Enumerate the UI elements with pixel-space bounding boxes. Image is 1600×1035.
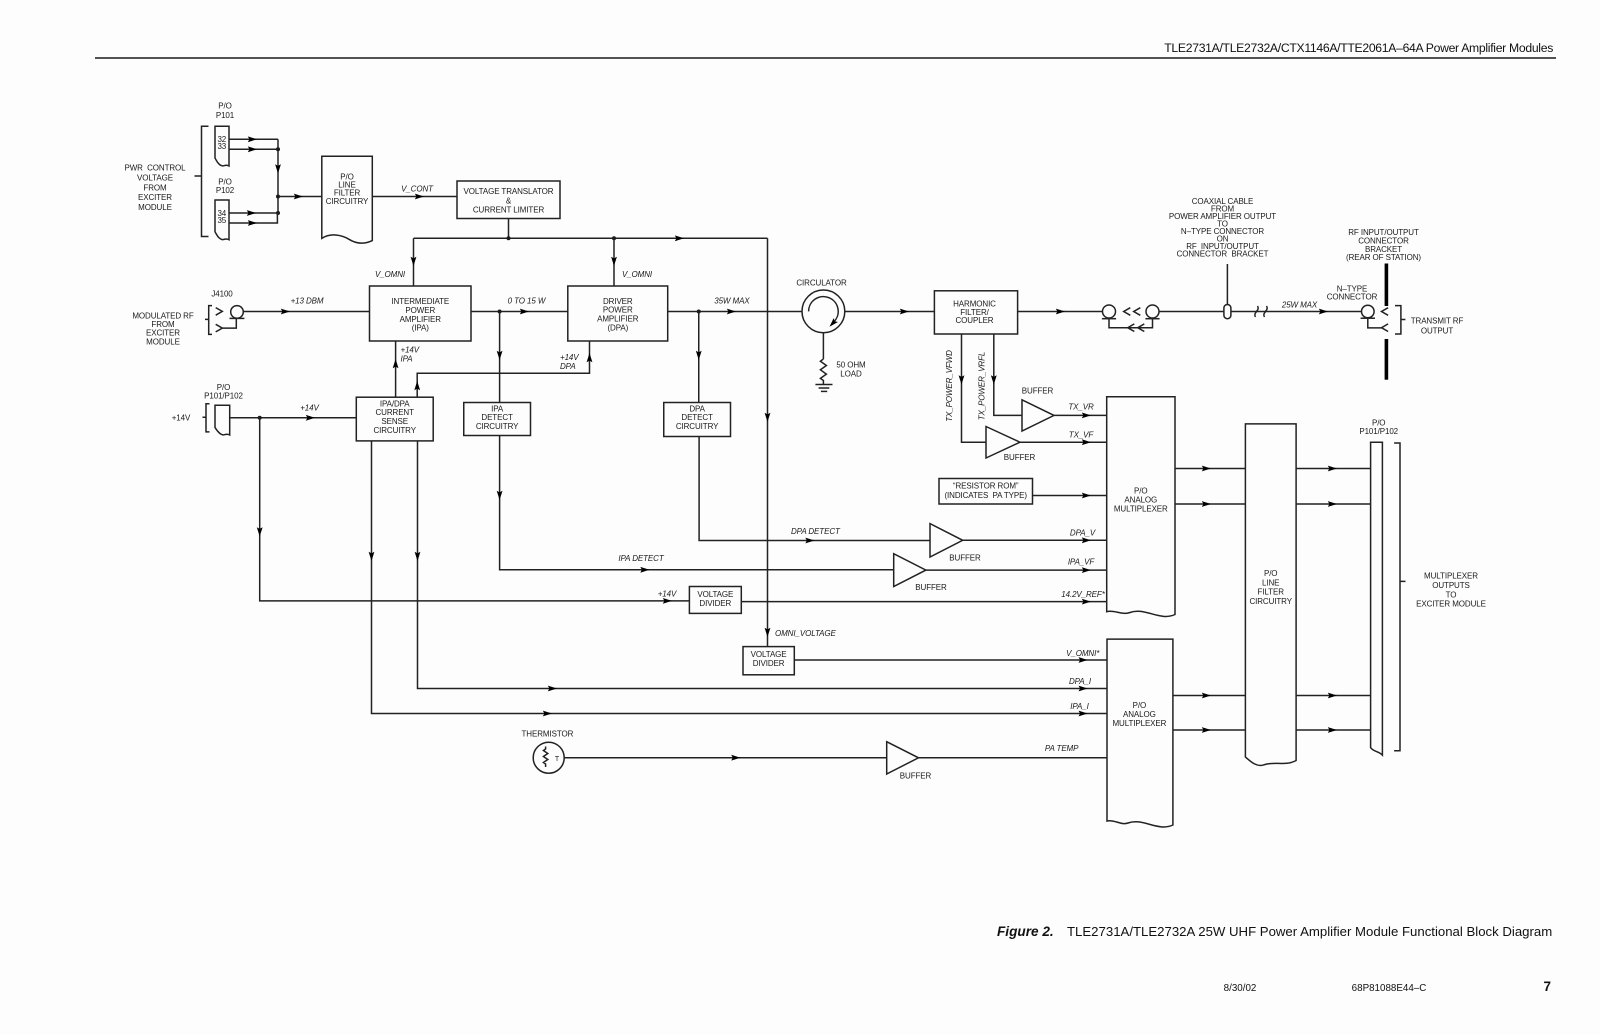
svg-text:T: T — [555, 756, 560, 763]
IPA box — [370, 286, 472, 341]
svg-text:FROM: FROM — [151, 320, 175, 329]
svg-text:CONNECTOR BRACKET: CONNECTOR BRACKET — [1177, 250, 1269, 259]
svg-text:BUFFER: BUFFER — [1004, 453, 1036, 462]
buffer IPA_VF — [894, 554, 926, 587]
svg-text:IPA/DPA: IPA/DPA — [380, 399, 410, 408]
label RF INPUT/OUTPUT CONNECTOR BRACKET (REAR OF STATION) — [1346, 228, 1421, 262]
shield stub below N connector — [1368, 318, 1382, 328]
svg-text:7: 7 — [1543, 979, 1551, 994]
svg-text:P/O: P/O — [1134, 487, 1147, 496]
svg-text:POWER: POWER — [405, 306, 435, 315]
svg-text:Figure 2.: Figure 2. — [997, 924, 1054, 939]
svg-text:DPA: DPA — [689, 404, 705, 413]
cable break symbol — [1255, 306, 1267, 317]
mating arrow out — [1382, 308, 1389, 316]
svg-text:P101/P102: P101/P102 — [1359, 427, 1398, 436]
svg-text:FILTER: FILTER — [1258, 588, 1285, 597]
harmonic filter/coupler box — [934, 291, 1017, 334]
svg-text:+14V: +14V — [172, 413, 191, 422]
wire V_CONT — [372, 196, 457, 198]
svg-text:FROM: FROM — [143, 183, 167, 192]
svg-text:V_OMNI*: V_OMNI* — [1066, 649, 1100, 658]
svg-text:DPA_I: DPA_I — [1069, 677, 1092, 686]
svg-text:MODULE: MODULE — [138, 203, 172, 212]
label COAXIAL CABLE ... — [1169, 197, 1276, 259]
wire IPA_VF to mux — [926, 569, 1107, 571]
ground — [815, 385, 832, 392]
svg-text:INTERMEDIATE: INTERMEDIATE — [391, 297, 449, 306]
svg-text:P/O: P/O — [1133, 701, 1146, 710]
svg-text:P/O: P/O — [218, 177, 231, 186]
mating arrows center — [1124, 308, 1131, 316]
svg-text:CIRCUITRY: CIRCUITRY — [373, 426, 416, 435]
svg-text:0 TO 15 W: 0 TO 15 W — [508, 297, 547, 306]
svg-text:DIVIDER: DIVIDER — [699, 599, 731, 608]
svg-text:P/O: P/O — [218, 102, 231, 111]
wire DPA DETECT to buffer — [699, 437, 930, 541]
brace J4100 — [205, 306, 212, 335]
svg-text:(REAR OF STATION): (REAR OF STATION) — [1346, 253, 1421, 262]
svg-text:TX_POWER_VFWD: TX_POWER_VFWD — [945, 350, 954, 422]
node pin34 junction — [276, 211, 280, 215]
svg-text:ANALOG: ANALOG — [1124, 496, 1157, 505]
wire OMNI_VOLTAGE long vertical — [767, 238, 769, 646]
wire DPA_I sense output — [418, 441, 1107, 689]
wire mux1 out B — [1175, 503, 1245, 505]
svg-text:PA TEMP: PA TEMP — [1045, 744, 1079, 753]
svg-text:14.2V_REF*: 14.2V_REF* — [1061, 590, 1105, 599]
node DPA branch junction — [612, 236, 616, 240]
label P/O P102 — [216, 177, 235, 195]
svg-text:P/O: P/O — [1264, 569, 1277, 578]
brace multiplexer outputs — [1394, 443, 1405, 751]
jack shell dash — [230, 317, 245, 319]
thermistor circle — [533, 742, 564, 773]
svg-text:V_CONT: V_CONT — [401, 185, 434, 194]
node output junction — [276, 195, 280, 199]
svg-text:PWR CONTROL: PWR CONTROL — [124, 164, 186, 173]
svg-text:BUFFER: BUFFER — [915, 583, 947, 592]
leader line to coax label — [1226, 264, 1228, 305]
svg-text:LINE: LINE — [1262, 578, 1279, 587]
net +14V IPA — [401, 345, 420, 363]
svg-text:+14V: +14V — [658, 589, 677, 598]
svg-text:&: & — [506, 196, 512, 205]
node DPA detect tap — [697, 310, 701, 314]
svg-text:ANALOG: ANALOG — [1123, 710, 1156, 719]
svg-text:DPA: DPA — [560, 362, 576, 371]
svg-text:VOLTAGE: VOLTAGE — [751, 650, 787, 659]
wire TX_POWER_VRFL — [994, 334, 1022, 415]
brace +14V connector — [203, 404, 210, 432]
N-type connector circle — [1362, 305, 1375, 318]
buffer TX_VR — [1022, 400, 1054, 431]
svg-text:TO: TO — [1446, 590, 1457, 599]
wire mux1 out A — [1175, 468, 1245, 470]
node pin33 junction — [276, 147, 280, 151]
wire IPA_I sense output — [372, 441, 1107, 714]
node IPA detect tap — [498, 310, 502, 314]
node +14V branch — [258, 416, 262, 420]
wire to line filter — [278, 196, 322, 198]
svg-text:VOLTAGE: VOLTAGE — [137, 174, 173, 183]
connector P101/P102 (tall flag) — [1371, 442, 1383, 755]
bracket TRANSMIT RF OUTPUT — [1395, 306, 1405, 334]
svg-text:+14V: +14V — [401, 345, 420, 354]
pin arrow bottom + wire — [216, 324, 223, 332]
svg-text:IPA DETECT: IPA DETECT — [618, 554, 664, 563]
label MULTIPLEXER OUTPUTS TO EXCITER MODULE — [1416, 572, 1486, 609]
wire V_OMNI to DPA — [613, 238, 615, 286]
svg-text:CIRCUITRY: CIRCUITRY — [326, 197, 369, 206]
svg-text:EXCITER: EXCITER — [138, 193, 172, 202]
svg-text:IPA: IPA — [401, 354, 413, 363]
svg-text:IPA: IPA — [491, 404, 504, 413]
svg-text:33: 33 — [217, 142, 226, 151]
svg-text:CIRCUITRY: CIRCUITRY — [1249, 597, 1292, 606]
header rule — [95, 57, 1556, 59]
wire thermistor to buffer — [564, 757, 887, 759]
label 50 OHM LOAD — [836, 361, 866, 379]
label P/O P101/P102 — [204, 383, 243, 401]
svg-text:TLE2731A/TLE2732A/CTX1146A/TTE: TLE2731A/TLE2732A/CTX1146A/TTE2061A–64A … — [1164, 41, 1553, 55]
wire +14V IPA feed — [395, 341, 397, 397]
svg-text:LOAD: LOAD — [840, 369, 862, 378]
buffer PA TEMP — [887, 742, 919, 774]
wire IPA DETECT to buffer — [500, 436, 894, 570]
coax jack A — [1103, 305, 1116, 318]
wire DPA_V to mux — [963, 539, 1107, 541]
wire 14.2V_REF* to mux — [741, 601, 1106, 603]
net +14V DPA — [560, 353, 579, 371]
wire pin34 — [229, 212, 278, 214]
svg-text:VOLTAGE: VOLTAGE — [697, 590, 733, 599]
svg-text:TX_VF: TX_VF — [1069, 430, 1095, 439]
svg-text:IPA_VF: IPA_VF — [1068, 558, 1096, 567]
svg-text:MULTIPLEXER: MULTIPLEXER — [1424, 572, 1478, 581]
label P/O P101 — [216, 102, 235, 120]
svg-text:(INDICATES PA TYPE): (INDICATES PA TYPE) — [944, 491, 1027, 500]
svg-text:DPA DETECT: DPA DETECT — [791, 527, 841, 536]
voltage divider (OMNI) box — [743, 647, 794, 675]
coax jack B — [1146, 305, 1159, 318]
shield loop between jacks — [1109, 319, 1153, 328]
wire filter out B — [1296, 503, 1371, 505]
voltage divider (14.2V_REF) box — [689, 587, 741, 614]
svg-text:50 OHM: 50 OHM — [836, 361, 866, 370]
svg-text:IPA_I: IPA_I — [1070, 702, 1089, 711]
svg-text:+14V: +14V — [560, 353, 579, 362]
svg-text:OUTPUT: OUTPUT — [1421, 327, 1454, 336]
circulator rotation arc — [809, 297, 839, 323]
label N-TYPE CONNECTOR — [1327, 284, 1378, 301]
DPA detect circuitry box — [664, 403, 731, 437]
svg-text:POWER: POWER — [603, 306, 633, 315]
brace for PWR CONTROL group — [195, 126, 209, 236]
svg-text:COUPLER: COUPLER — [956, 316, 994, 325]
svg-text:P/O: P/O — [217, 383, 230, 392]
V_OMNI bus horizontal — [414, 237, 768, 239]
node translator junction — [507, 236, 511, 240]
svg-text:+13 DBM: +13 DBM — [291, 297, 324, 306]
wire DPA detect tap down — [698, 312, 700, 403]
wire PA TEMP to mux — [919, 757, 1107, 759]
svg-text:BUFFER: BUFFER — [949, 553, 981, 562]
thermistor resistor glyph — [543, 747, 547, 768]
wire TX_VR to mux — [1054, 414, 1107, 416]
svg-text:35: 35 — [217, 216, 226, 225]
wire DPA to circulator — [668, 311, 802, 313]
label PWR CONTROL VOLTAGE FROM EXCITER MODULE — [124, 164, 186, 213]
wire resistor ROM to mux — [1033, 495, 1107, 497]
wire +14V to voltage divider — [260, 418, 690, 601]
svg-text:CIRCUITRY: CIRCUITRY — [676, 422, 719, 431]
wire V_OMNI* to mux — [794, 659, 1107, 661]
P/O line filter circuitry box (torn bottom) — [322, 156, 373, 243]
svg-text:MULTIPLEXER: MULTIPLEXER — [1114, 505, 1168, 514]
svg-text:BUFFER: BUFFER — [1022, 387, 1054, 396]
wire mux2 out B — [1173, 729, 1246, 731]
coax cable marker (oval) — [1224, 305, 1231, 319]
wire TX_VF to mux — [1020, 441, 1107, 443]
svg-text:DETECT: DETECT — [681, 413, 713, 422]
svg-text:MULTIPLEXER: MULTIPLEXER — [1112, 719, 1166, 728]
svg-text:OUTPUTS: OUTPUTS — [1432, 581, 1470, 590]
svg-text:TX_VR: TX_VR — [1068, 403, 1094, 412]
svg-text:68P81088E44–C: 68P81088E44–C — [1352, 983, 1427, 994]
svg-text:P101: P101 — [216, 111, 235, 120]
label P/O P101/P102 (right) — [1359, 419, 1398, 436]
resistor 50 OHM LOAD — [820, 359, 826, 385]
label TRANSMIT RF OUTPUT — [1411, 317, 1464, 336]
wire mux2 out A — [1173, 695, 1246, 697]
svg-text:DPA_V: DPA_V — [1070, 529, 1096, 538]
svg-text:CIRCUITRY: CIRCUITRY — [476, 422, 519, 431]
svg-text:“RESISTOR ROM”: “RESISTOR ROM” — [953, 482, 1019, 491]
wire from translator down — [508, 219, 510, 239]
svg-text:TRANSMIT RF: TRANSMIT RF — [1411, 317, 1464, 326]
svg-text:(IPA): (IPA) — [412, 324, 430, 333]
svg-text:VOLTAGE TRANSLATOR: VOLTAGE TRANSLATOR — [464, 187, 554, 196]
svg-text:DIVIDER: DIVIDER — [753, 659, 785, 668]
svg-text:DETECT: DETECT — [481, 413, 513, 422]
svg-text:CONNECTOR: CONNECTOR — [1327, 293, 1378, 302]
buffer TX_VF — [986, 427, 1020, 459]
svg-text:(DPA): (DPA) — [607, 324, 628, 333]
connector P102 (flag symbol) — [215, 200, 229, 240]
svg-text:+14V: +14V — [300, 404, 319, 413]
IPA detect circuitry box — [464, 403, 531, 436]
pin arrow top — [216, 308, 223, 316]
wire +14V to current sense — [230, 417, 357, 419]
svg-text:P102: P102 — [216, 186, 235, 195]
svg-text:DRIVER: DRIVER — [603, 297, 633, 306]
svg-text:MODULE: MODULE — [146, 337, 180, 346]
svg-text:BUFFER: BUFFER — [900, 772, 932, 781]
svg-text:EXCITER MODULE: EXCITER MODULE — [1416, 600, 1486, 609]
wire IPA to DPA — [471, 311, 568, 313]
junction bus vertical — [277, 139, 279, 213]
DPA box — [568, 286, 668, 341]
wire coax marker to N connector — [1231, 311, 1361, 313]
connector +14V (flag symbol) — [215, 405, 230, 435]
svg-text:J4100: J4100 — [211, 290, 233, 299]
wire pin35 — [229, 213, 277, 223]
wire TX_POWER_VFWD — [962, 334, 987, 442]
connector P101 (flag symbol) — [215, 126, 229, 166]
jack circle J4100 — [231, 306, 244, 319]
svg-text:CIRCULATOR: CIRCULATOR — [796, 279, 847, 288]
svg-text:P101/P102: P101/P102 — [204, 392, 243, 401]
wire harmonic filter to coax jacks — [1018, 311, 1103, 313]
bracket panel bar (upper) — [1385, 264, 1389, 307]
svg-text:V_OMNI: V_OMNI — [375, 270, 406, 279]
wire filter out D — [1296, 729, 1371, 731]
svg-text:CURRENT: CURRENT — [375, 408, 414, 417]
circulator circle — [802, 290, 845, 333]
wire circulator to harmonic filter — [845, 311, 935, 313]
wire jacks to coax marker — [1159, 311, 1224, 313]
svg-text:TLE2731A/TLE2732A 25W UHF Powe: TLE2731A/TLE2732A 25W UHF Power Amplifie… — [1067, 924, 1552, 939]
wire filter out A — [1296, 468, 1371, 470]
wire circulator to load — [822, 333, 824, 359]
wire pin33 — [229, 148, 278, 150]
label MODULATED RF FROM EXCITER MODULE — [132, 311, 194, 346]
svg-text:AMPLIFIER: AMPLIFIER — [597, 315, 639, 324]
svg-text:OMNI_VOLTAGE: OMNI_VOLTAGE — [775, 629, 837, 638]
wire +13 DBM — [243, 311, 369, 313]
svg-text:AMPLIFIER: AMPLIFIER — [400, 315, 442, 324]
svg-text:35W MAX: 35W MAX — [714, 297, 750, 306]
wire IPA detect tap down — [499, 312, 501, 403]
wire filter out C — [1296, 695, 1371, 697]
bracket panel bar (lower) — [1385, 339, 1389, 380]
svg-text:25W MAX: 25W MAX — [1281, 301, 1318, 310]
IPA/DPA current sense box — [356, 397, 433, 441]
svg-text:THERMISTOR: THERMISTOR — [522, 730, 574, 739]
wire V_OMNI to IPA — [413, 238, 415, 286]
wire +14V DPA feed — [417, 341, 589, 397]
svg-text:V_OMNI: V_OMNI — [622, 270, 653, 279]
wire pin32 — [229, 138, 278, 140]
svg-text:TX_POWER_VRFL: TX_POWER_VRFL — [978, 352, 987, 421]
svg-text:8/30/02: 8/30/02 — [1224, 983, 1257, 994]
svg-text:MODULATED RF: MODULATED RF — [132, 311, 194, 320]
svg-text:SENSE: SENSE — [381, 417, 408, 426]
svg-text:CURRENT LIMITER: CURRENT LIMITER — [473, 205, 545, 214]
buffer DPA_V — [930, 524, 963, 557]
voltage translator + current limiter box — [457, 181, 560, 219]
svg-text:EXCITER: EXCITER — [146, 329, 180, 338]
